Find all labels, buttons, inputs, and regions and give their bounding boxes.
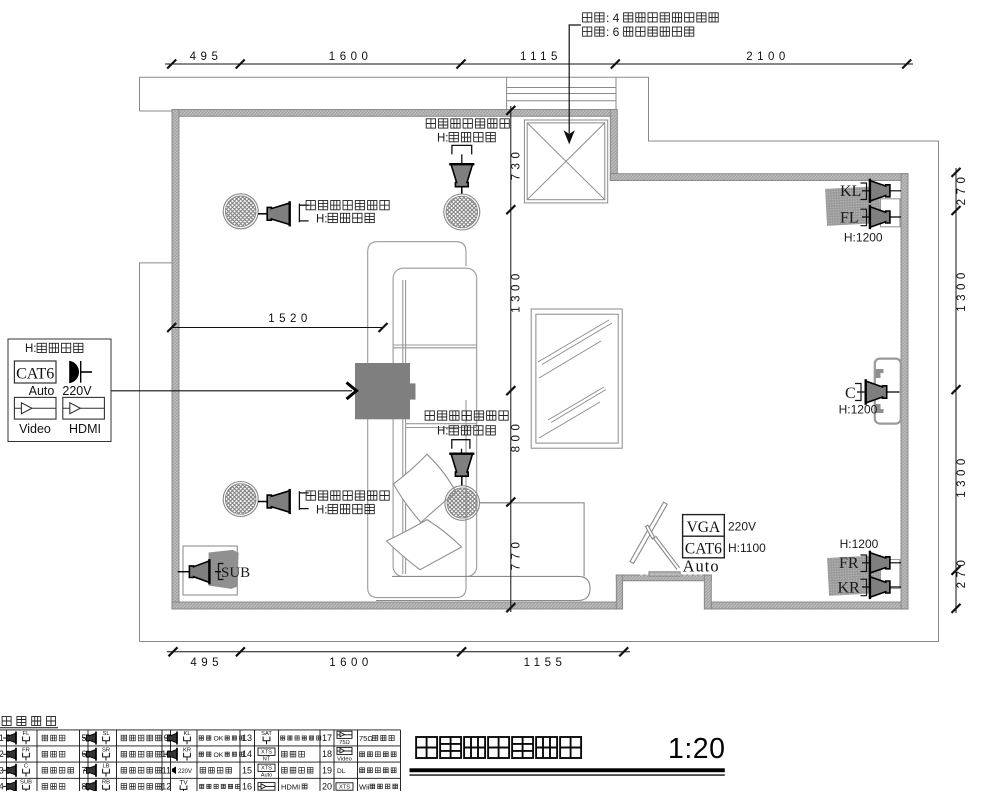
svg-text:Auto: Auto [683,557,720,576]
svg-text:800: 800 [511,420,523,453]
svg-text:FR: FR [839,555,859,572]
svg-text:1155: 1155 [524,657,567,669]
svg-text:12: 12 [161,781,171,791]
svg-text:VGA: VGA [687,519,721,536]
svg-text:XTS: XTS [339,785,350,791]
svg-text:FL: FL [840,209,859,226]
svg-text:SL: SL [102,731,110,737]
svg-text:KR: KR [838,579,861,596]
svg-text:495: 495 [190,657,223,669]
svg-text:OK: OK [214,752,224,759]
svg-text:KR: KR [183,747,191,753]
svg-text:FL: FL [23,731,31,737]
svg-text:XTS: XTS [261,766,272,772]
svg-text:CAT6: CAT6 [685,541,722,558]
svg-text:270: 270 [956,556,968,589]
svg-text:C: C [24,764,28,770]
svg-text:16: 16 [242,781,252,791]
svg-text:SR: SR [102,747,110,753]
svg-text:: 6: : 6 [606,25,620,39]
svg-text:KL: KL [840,183,861,200]
svg-text:1600: 1600 [329,51,373,63]
svg-text:19: 19 [322,765,332,775]
svg-text:17: 17 [322,733,332,743]
svg-text:H:: H: [25,343,37,355]
svg-text:18: 18 [322,749,332,759]
svg-text:H:: H: [437,133,449,145]
svg-text:C: C [845,385,856,402]
svg-text:H:1100: H:1100 [728,541,766,555]
svg-text:NT: NT [263,757,271,763]
svg-text:75Ω: 75Ω [359,734,373,743]
svg-text:SUB: SUB [20,780,32,786]
svg-text:CAT6: CAT6 [16,366,54,383]
svg-text:OK: OK [214,736,224,743]
svg-text:Auto: Auto [29,384,55,398]
svg-text:Video: Video [337,756,352,762]
svg-text:H:: H: [316,504,328,516]
svg-text:H:: H: [316,213,328,225]
svg-text:11: 11 [162,765,171,775]
svg-text:LB: LB [102,764,109,770]
svg-text:270: 270 [956,173,968,206]
svg-text:730: 730 [511,148,523,181]
svg-text:XTS: XTS [261,750,272,756]
svg-text:1300: 1300 [956,454,968,498]
svg-text:1600: 1600 [329,657,373,669]
svg-text:DL: DL [337,768,346,775]
svg-text:220V: 220V [728,520,756,534]
svg-text:H:: H: [437,426,449,438]
svg-text:770: 770 [511,538,523,571]
svg-text:H:1200: H:1200 [844,231,883,245]
svg-text:SAT: SAT [261,731,272,737]
svg-text:1300: 1300 [511,269,523,313]
svg-text:2100: 2100 [746,51,790,63]
svg-text:H:1200: H:1200 [840,537,879,551]
svg-text:HDMI: HDMI [69,422,101,436]
svg-text:HDMI: HDMI [281,782,300,791]
svg-text:20: 20 [322,781,332,791]
svg-text:Auto: Auto [261,773,273,779]
svg-text:220V: 220V [178,769,192,775]
svg-text:15: 15 [242,765,252,775]
svg-text:H:1200: H:1200 [839,403,878,417]
svg-text:Video: Video [19,422,51,436]
svg-text:1:20: 1:20 [668,733,725,765]
svg-text:1520: 1520 [268,313,312,325]
svg-text:Wii: Wii [359,782,370,791]
svg-text:495: 495 [190,51,223,63]
svg-text:1115: 1115 [520,51,562,63]
svg-text:220V: 220V [62,384,92,398]
svg-text:SUB: SUB [221,565,250,581]
svg-text:KL: KL [183,731,191,737]
svg-text:1300: 1300 [956,268,968,312]
svg-text:FR: FR [22,747,30,753]
svg-text:: 4: : 4 [606,11,620,25]
svg-text:RB: RB [102,780,110,786]
svg-text:75Ω: 75Ω [339,740,350,746]
